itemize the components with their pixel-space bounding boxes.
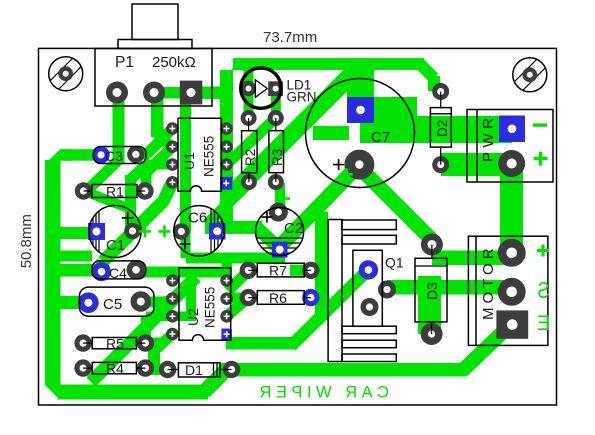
resistor R2 R3 lead lines [249,118,276,182]
potentiometer P1 shaft [132,4,178,40]
wire U1 pin1 diagonal to C3 right pad [147,129,173,155]
resistor R3 top pad [268,110,284,126]
connector MOTOR outline [468,236,548,345]
potentiometer P1 body outline [95,49,212,107]
wire C6 left pad down to band y258 [181,232,191,258]
connector PWR divider line [476,110,478,183]
wire VCC diagonal A from C7+ to U1 pin5 blue pad [230,70,352,192]
wire P1 pad1 vertical down [113,92,125,163]
green overlay marks [139,125,550,401]
svg-text:C7: C7 [371,129,390,146]
capacitor C1 blue square pad minus [88,223,105,240]
resistor R5 left pad [74,334,91,351]
resistor R7 R6 lead lines [248,270,311,297]
svg-text:D2: D2 [435,120,450,137]
wire P1 pad2-pad3 link [154,87,194,99]
connector PWR plus big pad [498,150,525,177]
wire VCC top band from trunk to D2 anode [233,58,424,70]
capacitor C2 minus hatch lines [257,238,303,253]
capacitor C5 right pad [131,291,152,312]
board outline [39,48,557,405]
transistor Q1 emitter pad [361,298,379,316]
potentiometer P1 pad 2 [143,82,165,104]
wire ground trunk C3 blue horizontal [62,149,102,161]
DIP pad drill crosses [169,126,229,338]
wire interior vertical x191 band272 to U2 pin3 row [186,272,196,316]
wire PWR big pad down to MOTOR pad1 [500,164,523,253]
wire U1 pin3 diagonal to C1 plus vertical [131,165,146,180]
transistor Q1 heatsink bottom fin 3 [342,354,396,362]
diode D3 outline [415,258,447,322]
capacitor C3 outline [94,147,147,164]
svg-text:C5: C5 [103,296,122,313]
wire LED cathode square down to R3 top [271,96,281,118]
wire ground band jog diagonal [204,370,226,392]
connector MOTOR pad 1 [498,239,526,267]
capacitor C5 outline [79,287,154,316]
connector MOTOR divider line [475,236,477,345]
resistor R3 outline [269,131,284,173]
wire R7 left diagonal down to U2 pin7 area [228,271,248,291]
wire vertical down to R1 right pad [141,168,152,192]
svg-text:U1: U1 [181,152,197,170]
capacitor C7 minus pad [344,150,374,180]
resistor R6 left pad [240,289,257,306]
capacitor C1 outline circle [89,206,141,258]
wire U2 pin5 blue pad band to Q1 base diagonal [226,337,296,350]
LED LD1 outline circle [241,68,281,108]
wire ground bottom band right segment [221,363,466,377]
transistor Q1 heatsink top fin 2 [342,235,396,244]
svg-text:GRN: GRN [287,90,317,105]
wire C7+ right-side fill above PWR band [373,97,417,122]
wire ground trunk corner chamfer [45,149,70,174]
diode D2 cathode stripe [430,113,451,115]
mounting hole top-left [49,57,83,91]
svg-text:R1: R1 [106,184,124,200]
svg-text:CAR WIPER: CAR WIPER [255,384,389,402]
wire P1 pad2 diagonal to U1 pin2 [157,133,172,148]
IC U1 pin5 blue square pad [220,177,232,190]
silkscreen plus mark C7 [333,159,344,170]
connector PWR blue square pad minus [499,116,525,143]
diode D2 D3 lead lines [432,92,441,335]
wire C3 right pad stub [135,149,149,160]
svg-text:NE555: NE555 [203,287,218,328]
resistor R4 left pad [74,359,91,376]
resistor R6 right blue pad [302,289,319,306]
wire ground branch to C5 blue [56,296,88,309]
resistor R7 outline [257,263,304,277]
wire U2 pin4 diagonal to R5 vertical [153,334,172,352]
wire small diagonal into U2 pin2 [163,299,172,302]
IC U2 pin5 blue square pad [221,329,231,340]
svg-text:R2: R2 [243,149,258,166]
transistor Q1 heatsink bottom fin 2 [342,340,396,348]
LED LD1 cathode square pad [268,81,283,96]
capacitor C6 minus hatch lines [211,209,222,253]
diode D1 right pad [223,361,240,378]
solder mark plus on C7 [341,168,353,180]
wire D3 top to MOTOR pad1 [432,251,512,266]
svg-text:50.8mm: 50.8mm [18,214,35,268]
svg-text:R3: R3 [270,149,285,166]
transistor Q1 body outline [353,250,382,326]
resistor R4 right pad [137,359,154,376]
capacitor C2 blue square pad [272,242,288,258]
wire ground trunk left vertical [45,160,61,385]
svg-text:U2: U2 [185,308,201,326]
IC U1 DIP pads pins 5-8 right column [220,122,233,135]
wire VCC top band left corner chamfer [220,58,252,81]
diode D3 bottom pad [421,323,443,345]
potentiometer P1 pad 1 [106,82,128,104]
MOTOR plus symbol [537,245,549,257]
wire vertical x154 R5 right to R4 right row [148,338,160,369]
wire R2 bottom diagonal down to C6 band [207,183,249,224]
wire R7 right pad stub to V1 [290,265,328,276]
diode D2 top pad [432,83,449,100]
capacitor C7 outline circle [306,79,415,188]
capacitor C4 outline [92,261,146,279]
wire LED anode down to R2 top [244,88,254,118]
transistor Q1 heatsink bottom fin 1 [342,326,396,334]
wire C7 minus to C2 blue pad wide diagonal [280,164,360,246]
LED LD1 diode triangle [255,80,267,98]
resistor R7 left pad [240,262,257,279]
solder mark plus between C1 and C6 [139,225,151,237]
wire R5 right pad stub [145,338,160,349]
wire R3 bottom to C2 plus pad vertical [275,183,285,213]
diode D2 outline [430,108,451,148]
capacitor hatch marks [90,209,303,253]
svg-text:PWR: PWR [480,114,497,163]
capacitor C4 blue pad [92,262,111,281]
svg-text:C3: C3 [105,148,123,164]
svg-text:D3: D3 [424,282,440,300]
wire P1 pad3 interior vertical to C6 left pad [180,98,191,233]
resistor R4 outline [92,362,136,373]
wire U2 pin6 diagonal up to R6 left [227,298,249,317]
solder mark plus right of C1 [159,225,171,237]
wire P1 pad2 vertical down [151,92,164,137]
wire ground stub y256 [56,251,92,262]
wire C5 right pad to U2 pin2 [140,297,166,308]
resistor R5 R4 lead lines [83,343,145,368]
wire ground bottom band left segment [58,385,208,400]
TRACES [45,58,523,400]
svg-text:NE555: NE555 [202,136,217,177]
svg-text:E: E [537,311,550,335]
connector PWR outline [467,110,553,183]
wire ground band right diagonal up to MOTOR square pad [462,330,505,371]
capacitor C1 plus pad [124,223,141,240]
resistor R5 right pad [137,334,154,351]
IC U2 DIP pads pins 1-4 left column [166,274,233,340]
svg-text:R7: R7 [269,263,287,279]
transistor Q1 heatsink top fin 1 [342,220,396,230]
resistor R1 right pad [136,182,153,199]
resistor R3 bottom pad [268,174,284,190]
svg-text:P1: P1 [115,54,134,71]
wire trunk V1 vertical R7 R6 right pads [315,212,328,320]
transistor Q1 heatsink spine [328,220,342,362]
capacitor C6 blue square pad [209,223,226,240]
wire U1 pin4 ground diagonal to C4 blue [163,182,172,202]
diode D3 cathode stripe [415,265,447,267]
capacitor C3 right pad [127,146,144,163]
capacitor C2 plus pad [269,203,288,222]
wire ground bottom-left corner chamfer [45,371,72,400]
wire U1 pin3 horizontal left [144,160,174,170]
mounting hole top-right [513,58,547,92]
wire ground branch to C4 blue [56,264,101,277]
svg-text:C2: C2 [284,220,303,237]
PADS [74,81,528,379]
wire R6 left to U2 pin7 [226,293,249,304]
svg-text:S: S [538,278,550,304]
wire U1 pin6 diagonal to R3 top [227,118,276,165]
resistor R1 lead lines [84,190,146,192]
capacitor C2 outline circle [256,208,304,256]
resistor R2 outline [242,131,258,173]
wire band y258 C6 bottom to C2 blue [186,253,285,264]
svg-text:R5: R5 [106,336,124,352]
LED LD1 anode pad [241,81,256,96]
capacitor C3 blue pad [92,146,109,163]
wire U2 pin3 left to R5 right vertical [146,312,173,322]
resistor R2 top pad [241,110,257,126]
wire C7+ square to VCC top band [347,62,374,98]
IC U2 DIP pads pins 6-8 right column [220,274,233,287]
capacitor C6 outline circle [174,206,224,256]
capacitor C4 right pad [127,260,146,279]
solder mark plus above C2 [278,193,290,205]
wire VCC diagonal B from top band to R2 bottom [249,67,364,182]
svg-text:73.7mm: 73.7mm [263,29,317,46]
wire C7 minus to D3 top wide diagonal [358,166,432,240]
resistor R5 outline [92,338,136,349]
wire C6 band diagonal into C2 blue pad [257,228,280,250]
diode D3 top pad [421,234,443,256]
wire Q1 collector to MOTOR pad2 under D3 [387,280,512,295]
resistor R2 bottom pad [241,174,257,190]
wire vertical x146 down to R5 right pad [141,316,151,344]
diode D1 left pad [159,361,176,378]
wire U2 pin8 up to band y258 [222,258,233,281]
svg-text:C6: C6 [188,210,207,227]
silkscreen plus mark C1 [122,212,134,224]
IC U1 outline [178,118,221,191]
wire band diagonal up to Q1 base blue pad [291,270,368,346]
resistor R6 outline [257,291,304,305]
connector MOTOR square pad 3 [496,310,528,338]
potentiometer P1 base [118,40,192,49]
PWR minus symbol [533,123,547,126]
diode D1 outline [178,363,220,377]
potentiometer P1 pad 3 square [180,81,203,105]
silkscreen plus mark C2 [262,212,273,223]
PWR plus symbol [534,152,548,166]
wire R1 left shallow diagonal to C1 plus vertical [84,191,128,208]
svg-text:R6: R6 [269,290,287,306]
wire P1 pad3 to trunk [190,87,224,100]
svg-text:MOTOR: MOTOR [480,244,497,320]
silkscreen plus mark C6 [180,239,191,250]
diode D1 lead lines [168,369,232,371]
diode D1 cathode stripe [214,363,218,377]
wire C6 blue band to C2 blue [205,221,262,234]
transistor Q1 collector pad [378,281,396,299]
wire vertical x130 down to C1 plus pad [125,175,136,232]
wire P1 pin3 to VCC trunk vertical through U1 right pads [220,70,233,234]
capacitor C5 blue pad [78,292,99,313]
wire U1 pin2 diagonal to R1 right vertical [146,147,172,173]
capacitor C6 left pad [173,223,190,240]
wire C7+ square to PWR blue square wide band [360,116,512,143]
wire VCC top band right corner down to D2 top pad [420,64,434,91]
wire LED anode stub to top band [244,64,254,90]
svg-text:C1: C1 [106,237,125,254]
diode D2 bottom pad [432,156,449,173]
connector MOTOR pad 2 [498,278,526,306]
wire ground branch to C1 blue [56,227,96,239]
resistor R7 right pad [302,262,319,279]
svg-text:R4: R4 [106,361,124,377]
wire wide diagonal W2 band272 to ground band through R5 R4 [91,277,196,382]
svg-text:250kΩ: 250kΩ [152,54,196,71]
IC U1 DIP pads pins 1-4 left column [166,122,233,188]
wire R4 right pad to D1 left pad [145,364,168,376]
svg-text:Q1: Q1 [385,255,404,271]
wire C7+ square lower-left connector [313,126,349,140]
svg-text:C4: C4 [109,265,127,281]
resistor R1 outline [92,185,137,198]
capacitor C1 minus hatch lines [90,211,99,252]
wire D2 cathode to PWR big pad [441,153,512,176]
capacitor C7 blue square pad plus [347,97,374,123]
IC U2 outline [179,268,231,340]
svg-text:D1: D1 [185,362,203,378]
resistor R1 left pad [75,182,92,199]
transistor Q1 base blue pad [359,260,378,279]
wire P1 pad1 diagonal to R1 left [86,160,119,192]
wire collector vertical under D3 to D3 bottom pad [418,276,441,334]
wire U2 pin3 horizontal right stub [172,312,196,322]
wire C4 right pad band y272 over U2 pin1 [136,267,232,278]
